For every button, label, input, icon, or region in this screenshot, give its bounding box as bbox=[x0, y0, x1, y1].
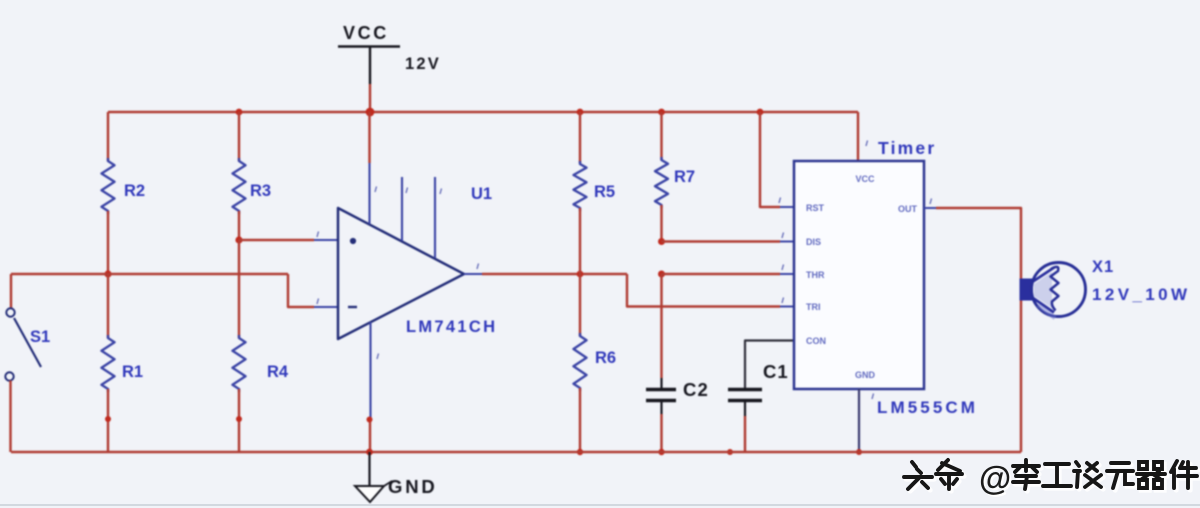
bottom edge border bbox=[0, 504, 1200, 506]
op-amp input markers bbox=[350, 238, 356, 244]
wire TRI pin stub bbox=[780, 306, 794, 308]
pin number 1 bbox=[375, 187, 377, 193]
junction R1 top bbox=[104, 270, 111, 277]
power symbol VCC bbox=[338, 45, 400, 48]
op-amp bottom pin 4 bbox=[369, 322, 371, 419]
op-amp output pin 6 bbox=[464, 273, 482, 275]
wire R6 bottom lead bbox=[579, 388, 581, 452]
junction C1 bottom bbox=[727, 449, 733, 455]
wire inverting step bbox=[288, 274, 314, 307]
pin number 3 bbox=[317, 232, 319, 238]
wire output step down bbox=[627, 274, 780, 307]
wire R1 bottom lead bbox=[107, 389, 109, 452]
resistor R6 bbox=[574, 333, 587, 391]
wire CON pin bbox=[745, 341, 794, 389]
resistor R2 bbox=[102, 158, 115, 214]
pin number OUT bbox=[930, 199, 932, 205]
resistor R7 bbox=[655, 157, 668, 208]
wire R3 bottom lead bbox=[238, 211, 240, 240]
wire 555 VCC pin bbox=[857, 112, 859, 161]
wire DIS pin bbox=[662, 240, 781, 242]
wire R5 bottom lead bbox=[579, 208, 581, 274]
junction R5 node bbox=[577, 271, 584, 278]
junction R1 bottom bbox=[105, 416, 111, 422]
op-amp power pin 1 bbox=[368, 112, 370, 163]
op-amp power pin 7 bbox=[434, 177, 436, 258]
resistor R5 bbox=[574, 161, 587, 211]
wire S1 net bbox=[10, 274, 12, 308]
wire R7 bottom lead bbox=[660, 205, 662, 242]
junction op-amp pin4 bbox=[367, 417, 373, 423]
pin number TRI bbox=[782, 298, 784, 304]
pin number 7 bbox=[440, 189, 442, 195]
svg-text:@: @ bbox=[979, 460, 1011, 497]
wire R2 to node bbox=[107, 211, 109, 274]
junction node A bbox=[235, 236, 242, 243]
pin number RST bbox=[779, 198, 781, 204]
pin number GND1 bbox=[872, 394, 874, 400]
wire R4 bottom lead bbox=[238, 389, 240, 452]
wire R3 top lead bbox=[238, 112, 240, 161]
lamp X1 bbox=[1020, 279, 1034, 301]
junction RST branch bbox=[757, 109, 764, 116]
wire R4 top lead bbox=[238, 240, 240, 338]
pin number THR bbox=[782, 265, 784, 271]
pin number DIS bbox=[782, 233, 784, 239]
junction DIS node bbox=[658, 238, 665, 245]
wire R2 top lead bbox=[107, 112, 109, 161]
junction R6 bottom bbox=[577, 449, 583, 455]
wire RST pin bbox=[760, 112, 780, 207]
wire R7 top lead bbox=[660, 112, 662, 160]
resistor R3 bbox=[233, 158, 246, 214]
switch S1 bbox=[6, 308, 14, 316]
junction 555 GND bbox=[856, 449, 862, 455]
junction C2 bottom bbox=[658, 449, 664, 455]
junction R4 bottom bbox=[236, 416, 242, 422]
resistor R4 bbox=[233, 335, 246, 392]
pin number VCC8 bbox=[866, 141, 868, 147]
wire THR pin bbox=[662, 273, 781, 275]
op-amp power pin 5 bbox=[401, 177, 403, 241]
junction R5 top bbox=[577, 109, 584, 116]
wire VCC net top rail bbox=[108, 111, 858, 113]
wire C1 bottom lead bbox=[744, 402, 746, 416]
wire R6 top lead bbox=[579, 274, 581, 336]
junction R3 top bbox=[236, 109, 243, 116]
wire noninverting input bbox=[239, 239, 314, 241]
junction VCC rail bbox=[366, 108, 375, 117]
wire GND bottom rail bbox=[11, 451, 1021, 453]
op-amp U1 bbox=[338, 208, 464, 339]
watermark 头条 @李工谈元器件 bbox=[906, 462, 1199, 491]
pin number 2 bbox=[317, 299, 319, 305]
wire S1 bottom lead bbox=[9, 381, 11, 453]
junction R7 top bbox=[658, 109, 665, 116]
capacitor C1 bbox=[728, 388, 762, 392]
wire inverting net bbox=[11, 273, 288, 275]
wire 555 GND pin bbox=[858, 389, 860, 452]
resistor R1 bbox=[102, 335, 115, 392]
pin number 6 bbox=[477, 264, 479, 270]
junction GND rail bbox=[366, 449, 373, 456]
pin number 5 bbox=[406, 188, 408, 194]
wire C2 bottom lead bbox=[660, 402, 662, 414]
wire R5 top lead bbox=[579, 112, 581, 163]
capacitor C2 bbox=[646, 388, 676, 392]
junction THR node bbox=[658, 271, 665, 278]
wire C2 top lead bbox=[660, 274, 662, 378]
wire R1 top lead bbox=[107, 274, 109, 338]
timer IC U2 box bbox=[794, 161, 924, 389]
wire op-amp output bbox=[482, 273, 627, 275]
wire OUT net bbox=[924, 207, 938, 209]
pin number 4 bbox=[377, 354, 379, 360]
ground bbox=[368, 452, 370, 486]
